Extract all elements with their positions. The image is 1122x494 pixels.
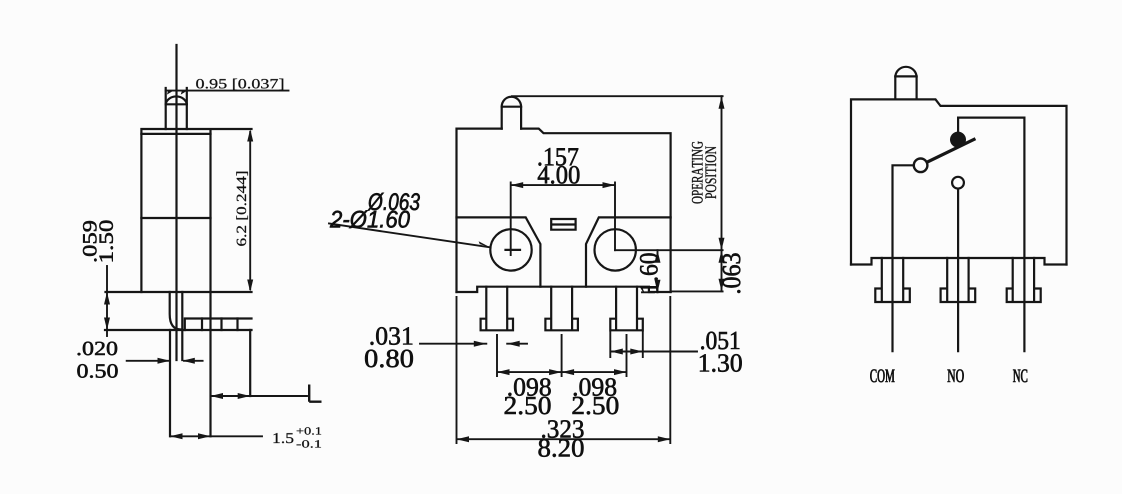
centerline	[175, 45, 177, 360]
text .157	[539, 148, 579, 166]
text COM	[870, 369, 894, 382]
text 1.30	[700, 354, 742, 372]
text .020	[78, 342, 118, 356]
body bottom schematic	[851, 258, 1067, 265]
text 0.80	[365, 350, 413, 368]
terminal with curl	[170, 292, 181, 330]
hole left cross	[506, 249, 521, 251]
text 0.95 [0.037]	[196, 79, 283, 91]
text NC	[1013, 369, 1027, 382]
free position line	[512, 95, 723, 97]
text L	[309, 385, 321, 402]
hole left	[490, 229, 531, 270]
flange bottom	[105, 329, 252, 331]
body side view	[141, 129, 251, 436]
dimension 0.50 arrow lines	[127, 360, 203, 362]
NC contact dot	[950, 132, 966, 148]
NO contact circle	[952, 177, 964, 189]
operating position dim line	[721, 96, 723, 291]
shelf right	[586, 217, 671, 286]
COM wire	[893, 165, 914, 351]
arrowheads center view	[511, 182, 524, 188]
dim .031 lines	[420, 343, 527, 345]
text .031	[371, 327, 413, 345]
lower right block	[249, 330, 251, 396]
text 0.50	[77, 364, 117, 378]
dimension 0.95 line	[166, 90, 289, 92]
dimension .059 line	[106, 266, 108, 336]
shelf left	[457, 217, 541, 286]
pin 1 front view	[481, 287, 513, 331]
text 1.50 rotated	[99, 221, 113, 262]
flange top	[106, 291, 252, 293]
body mid line	[141, 217, 210, 219]
text 8.20	[539, 439, 584, 457]
text .059 rotated	[83, 221, 97, 261]
text 2.50 b	[573, 397, 619, 415]
NC wire	[1023, 118, 1025, 352]
text NO	[948, 369, 964, 382]
dim .063 bottom extension	[671, 290, 723, 292]
dimension 6.2 line	[249, 132, 251, 289]
body lid line	[141, 133, 210, 135]
lever	[927, 139, 974, 162]
dim .323 extensions + line	[457, 297, 671, 443]
pin 3 front view	[610, 287, 643, 331]
slot	[551, 219, 575, 230]
dim .098 extensions + line	[497, 335, 627, 376]
body outline schematic	[851, 99, 1067, 264]
COM contact circle	[914, 159, 928, 173]
hole right	[595, 229, 636, 270]
text .098 b	[574, 378, 616, 396]
pin 3 schematic	[1007, 258, 1041, 302]
text diameter .063	[368, 193, 420, 211]
terminal right line	[181, 292, 183, 360]
inner frame left drop to NC dot	[957, 118, 959, 132]
pin 2 schematic	[941, 258, 976, 302]
text 4.00	[538, 166, 580, 184]
NO wire	[957, 189, 959, 351]
text 2.50 a	[505, 397, 551, 415]
inner frame top	[958, 116, 1024, 118]
dim 4.00 line + extensions	[511, 183, 615, 256]
text 2-dia 1.60	[330, 210, 410, 228]
lower wide pin	[169, 330, 171, 436]
pin 2 front view	[545, 287, 578, 331]
terminal band top	[185, 319, 252, 331]
dim .051 extensions + line	[610, 332, 697, 357]
dimension 1.5 line	[171, 435, 262, 437]
text .098 a	[508, 378, 550, 396]
text .063 rotated	[723, 253, 741, 293]
dim 1.60 stubs	[642, 250, 658, 292]
text .323	[542, 420, 583, 438]
plunger schematic view	[895, 76, 916, 99]
plunger front view	[502, 107, 521, 129]
text 6.2 [0.244] rotated	[236, 172, 248, 246]
body bottom edge front view	[457, 287, 671, 292]
plunger dome side view	[166, 96, 187, 104]
plunger dome front view	[502, 97, 521, 107]
band ticks	[202, 319, 238, 331]
body outline front view	[457, 129, 671, 292]
arrowheads left view	[167, 91, 173, 94]
hole right center line	[615, 249, 723, 251]
dimension L line	[211, 395, 308, 397]
text 1.5 +0.1 -0.1	[274, 433, 294, 443]
plunger side view	[166, 88, 187, 129]
text .051	[701, 332, 739, 350]
pin 1 schematic	[875, 258, 910, 302]
leader line	[329, 224, 490, 248]
plunger dome schematic view	[895, 67, 916, 77]
text OPERATING POSITION rotated	[692, 141, 703, 203]
text 1.60 rotated	[640, 253, 658, 291]
